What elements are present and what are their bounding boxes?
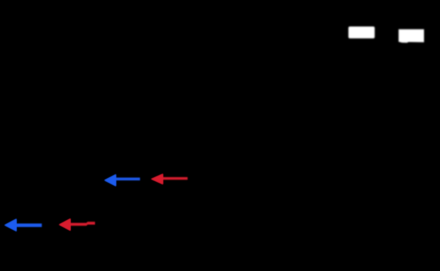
blue arrow (upper pair) — [104, 174, 140, 186]
white band 1 — [348, 27, 374, 39]
red arrow (upper pair) — [151, 174, 188, 185]
blue arrow (lower pair) — [4, 219, 41, 232]
red arrow (lower pair) — [59, 219, 95, 231]
white band 2 — [399, 29, 424, 43]
